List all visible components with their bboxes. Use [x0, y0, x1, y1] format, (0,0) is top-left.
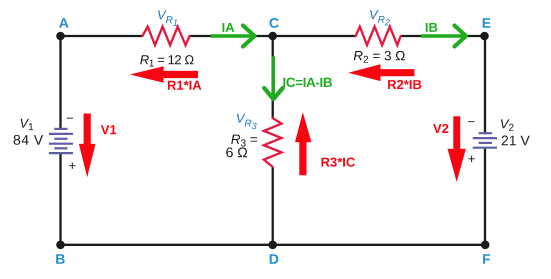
- label V1 arrow: [101, 125, 116, 134]
- node E: [480, 32, 489, 41]
- label IB: [426, 23, 438, 32]
- wire R1 to C: [190, 35, 273, 37]
- battery V1 plus sign: [69, 163, 75, 169]
- label R3 =: [231, 135, 257, 147]
- label 6 ohm: [226, 147, 247, 157]
- wire left upper A to battery V1: [59, 36, 61, 129]
- label IA: [223, 23, 235, 32]
- label 84 V: [14, 135, 43, 145]
- label V1 source: [21, 119, 34, 130]
- wire middle lower R3 to D: [272, 167, 274, 245]
- label VR3: [237, 114, 257, 129]
- wire top A to R1: [61, 35, 143, 37]
- voltage arrow V2: [448, 116, 466, 182]
- node C: [268, 32, 277, 41]
- current arrow IB: [421, 26, 466, 47]
- battery V1: [49, 129, 73, 153]
- node D: [268, 241, 277, 250]
- label R2*IB: [388, 80, 421, 89]
- wire middle upper C to R3: [272, 36, 274, 118]
- voltage arrow R3*IC: [295, 112, 311, 175]
- wire C to R2: [273, 35, 356, 37]
- current arrow IC: [264, 56, 283, 99]
- resistor R3: [264, 118, 282, 167]
- label IC=IA-IB: [283, 78, 332, 88]
- resistor R1: [142, 27, 189, 46]
- wire right lower battery V2 to F: [484, 147, 486, 245]
- label R3*IC: [322, 158, 355, 167]
- label VR2: [370, 10, 390, 25]
- wire R2 to E: [401, 35, 485, 37]
- node A: [56, 32, 65, 41]
- battery V2 plus sign: [468, 156, 474, 162]
- label 21 V: [502, 136, 530, 146]
- battery V2 minus sign: [468, 120, 474, 123]
- voltage arrow V1: [79, 114, 96, 178]
- current arrow IA: [211, 26, 255, 47]
- battery V1 minus sign: [67, 117, 73, 120]
- label V2 arrow: [433, 124, 448, 133]
- battery V2: [473, 133, 497, 148]
- label V2 source: [501, 119, 514, 130]
- wire right upper E to battery V2: [484, 36, 486, 134]
- voltage arrow R1*IA: [130, 66, 198, 82]
- resistor R2: [356, 27, 401, 46]
- wire left lower battery V1 to B: [59, 153, 61, 245]
- node B: [56, 241, 65, 250]
- voltage arrow R2*IB: [348, 64, 414, 81]
- label VR1: [158, 10, 177, 25]
- label R1*IA: [168, 81, 201, 90]
- wire bottom B-D-F: [61, 244, 486, 246]
- node F: [481, 241, 490, 250]
- label R2 = 3 ohm: [354, 51, 405, 63]
- label R1 = 12 ohm: [140, 55, 193, 66]
